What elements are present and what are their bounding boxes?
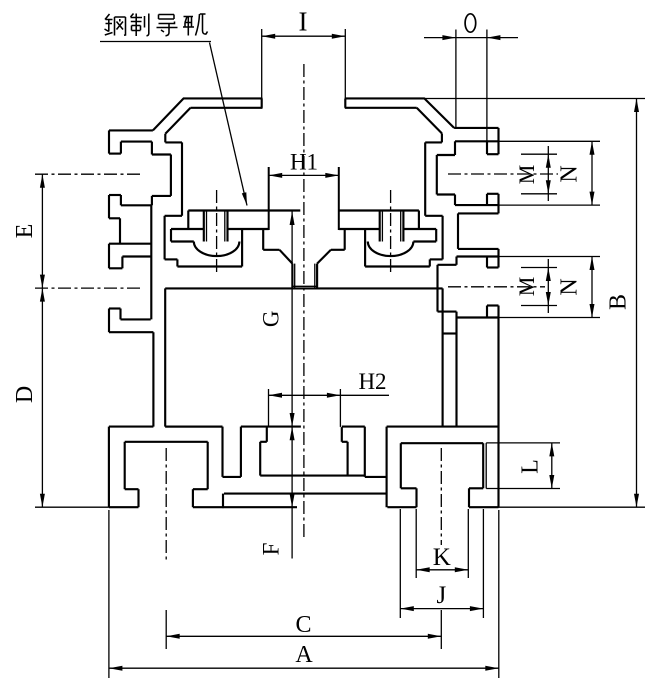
- dimension L line: [551, 443, 553, 489]
- right chamber wall: [455, 318, 457, 427]
- seat ledge left: [165, 215, 182, 217]
- right slot 2 upper lip: [486, 257, 488, 268]
- svg-text:F: F: [259, 543, 284, 556]
- right slot 2 cavity bottom: [457, 316, 499, 318]
- left foot leg inner left: [124, 442, 126, 489]
- undercut floor right: [331, 249, 345, 251]
- bolt R thread line left: [381, 211, 383, 242]
- H2 slot widening step left: [260, 441, 267, 443]
- dimension D line: [41, 288, 43, 507]
- dimension N2 line: [591, 257, 593, 318]
- dimension O label: [465, 14, 476, 32]
- right column top edge: [454, 127, 498, 129]
- chamfer inner left: [165, 108, 190, 134]
- left foot bottom right: [193, 506, 224, 508]
- right foot centerline: [440, 448, 442, 545]
- left column top edge: [109, 129, 153, 131]
- seat step left: [165, 258, 178, 260]
- H2 slot mouth wall right: [341, 427, 343, 442]
- right slot 1 centerline: [448, 173, 558, 175]
- tooth 1 top and cover: [241, 426, 301, 428]
- dimension N1 line: [591, 141, 593, 205]
- leader underline: [100, 41, 211, 43]
- right face lower: [497, 306, 499, 508]
- left slot 1 centerline: [35, 173, 142, 175]
- dimension I line: [262, 35, 346, 37]
- dimension M2 extension lines: [521, 267, 557, 269]
- bolt L shank side right: [226, 211, 228, 242]
- seat ledge right: [425, 215, 442, 217]
- dimension O extension lines: [455, 30, 457, 129]
- left slot 2 pocket wall: [150, 205, 152, 319]
- right slot 1 cavity top: [455, 140, 499, 142]
- svg-text:A: A: [295, 642, 313, 668]
- clamp plate right: [339, 228, 380, 230]
- right column notch: [458, 212, 499, 214]
- countersink cone right: [317, 250, 331, 264]
- left foot bottom left: [109, 506, 139, 508]
- label: steel guide rail (Chinese): [105, 14, 208, 37]
- dimension I extension lines: [261, 29, 263, 98]
- dimension F line: [291, 427, 293, 559]
- rail right end face: [418, 211, 420, 230]
- left face notch: [109, 217, 120, 219]
- left slot 2 pocket top: [122, 255, 150, 257]
- bolt end cap: [292, 285, 317, 287]
- leader line: [210, 43, 248, 206]
- right face upper: [497, 128, 499, 154]
- bolt R shank side right: [402, 211, 404, 242]
- dimension C line: [166, 635, 441, 637]
- svg-text:H2: H2: [358, 369, 386, 394]
- undercut wall right: [344, 229, 346, 250]
- bolt L shank side left: [203, 211, 205, 242]
- bolt L thread line left: [206, 211, 208, 242]
- left foot cavity ceiling: [125, 441, 208, 443]
- bottom plate top: [224, 493, 386, 495]
- dimension J extension lines: [399, 509, 401, 618]
- svg-text:E: E: [12, 224, 38, 239]
- dimension A line: [109, 667, 499, 669]
- left foot top plate: [109, 426, 153, 428]
- left slot 2 centerline: [35, 287, 142, 289]
- H2 slot widening step right: [342, 441, 348, 443]
- dimension D extension line bottom: [35, 506, 109, 508]
- svg-text:I: I: [299, 7, 308, 37]
- right chamber top: [443, 332, 457, 334]
- dimension K line: [416, 569, 468, 571]
- channel 1 right wall: [240, 427, 242, 477]
- bolt L thread line right: [224, 211, 226, 242]
- clamp plate left: [171, 228, 204, 230]
- rail slot wall left / H1 extension: [268, 167, 270, 230]
- left face between slot1 and notch: [108, 195, 110, 218]
- seat floor right: [365, 265, 430, 267]
- channel 1 left wall: [221, 427, 223, 477]
- interior box left wall: [164, 288, 166, 426]
- right slot 2 cavity top: [457, 255, 499, 257]
- left face above slot 2: [108, 244, 110, 269]
- seat step right: [430, 258, 443, 260]
- left slot 1 lower lip: [120, 195, 122, 205]
- left slot 1 pocket bottom: [151, 196, 153, 205]
- bolt hole wall right: [316, 264, 318, 289]
- rail top surface left: [188, 209, 300, 211]
- right foot top plate: [387, 426, 499, 428]
- tooth 2 right wall: [364, 427, 366, 477]
- undercut floor left: [263, 249, 279, 251]
- left foot ledge left: [137, 489, 139, 507]
- svg-text:N: N: [557, 165, 583, 182]
- left slot 2 upper lip: [121, 257, 123, 269]
- dimension M2 line: [547, 259, 549, 313]
- dimension B extension top: [425, 98, 645, 100]
- right slot 1 pocket wall upper: [454, 141, 456, 155]
- svg-text:B: B: [606, 294, 632, 310]
- right foot cavity ceiling: [401, 442, 483, 444]
- bottom plate bottom face: [223, 506, 298, 508]
- dimension B extension bottom: [499, 506, 646, 508]
- right slot 1 cavity bottom: [455, 204, 499, 206]
- dimension M1 extension lines: [521, 153, 557, 155]
- right slot 1 lower lip: [486, 194, 488, 205]
- bottom plate left end: [222, 494, 224, 508]
- top cover plate left: [183, 97, 263, 99]
- left slot 2 lower lip: [109, 307, 121, 309]
- rail top surface right: [339, 209, 419, 211]
- right slot 2 lower lip: [486, 306, 488, 318]
- svg-text:G: G: [259, 310, 284, 327]
- chamfer outer left: [153, 98, 184, 130]
- dimension H2 extension lines: [268, 389, 270, 427]
- dimension N2 extension lines: [499, 256, 601, 258]
- channel 2 right wall: [386, 427, 388, 508]
- dimension A extension lines: [108, 510, 110, 678]
- svg-text:D: D: [12, 386, 38, 403]
- dimension O line: [424, 37, 518, 39]
- dimension E line: [41, 174, 43, 288]
- left foot outer wall: [108, 427, 110, 508]
- dimension H1 line: [269, 174, 339, 176]
- top cover plate right: [345, 97, 425, 99]
- countersink cone left: [280, 250, 293, 264]
- channel 1 floor: [223, 476, 241, 478]
- bolt R centerline: [390, 190, 392, 273]
- right foot bottom right: [469, 506, 499, 508]
- left foot ledge right: [193, 488, 208, 490]
- bolt R thread line right: [400, 211, 402, 242]
- bolt hole wall left: [291, 264, 293, 289]
- bolt hole thread left: [294, 264, 296, 289]
- interior box right wall: [442, 288, 444, 426]
- box floor left segment: [165, 426, 222, 428]
- right foot leg inner right: [482, 443, 484, 488]
- dimension L extension lines: [486, 442, 560, 444]
- seat floor left: [177, 265, 242, 267]
- bolt R dome head: [368, 242, 414, 257]
- right slot 1 deep recess: [437, 154, 455, 156]
- svg-text:C: C: [295, 612, 311, 638]
- dimension G line: [291, 212, 293, 427]
- left lower outer wall: [152, 332, 154, 426]
- left slot 1 upper lip: [109, 153, 121, 155]
- svg-text:J: J: [437, 582, 447, 609]
- left foot centerline: [165, 448, 167, 560]
- rail left end face: [187, 211, 189, 230]
- dimension H2 line: [269, 394, 390, 396]
- right slot 2 centerline: [448, 286, 545, 288]
- right foot leg inner left: [400, 443, 402, 488]
- left face below slot 2: [108, 309, 110, 333]
- right slot 2 pocket wall upper: [455, 257, 457, 265]
- undercut wall left: [262, 229, 264, 250]
- left slot 1 pocket top: [121, 141, 152, 143]
- chamfer inner right: [417, 108, 442, 134]
- right foot ledge right: [469, 487, 483, 489]
- right slot 1 upper lip: [486, 141, 488, 154]
- svg-text:K: K: [433, 544, 451, 571]
- right slot 2 deep recess: [438, 264, 457, 266]
- bolt hole thread right: [314, 264, 316, 289]
- dimension B line: [636, 99, 638, 508]
- bolt R shank side left: [379, 211, 381, 242]
- tooth 2 top: [342, 426, 365, 428]
- channel 2 floor: [365, 476, 387, 478]
- dimension J line: [400, 608, 483, 610]
- dimension K extension lines: [415, 509, 417, 578]
- right face between notch and slot2: [497, 249, 499, 268]
- right slot 1 pocket wall lower: [454, 195, 456, 206]
- svg-text:H1: H1: [290, 150, 318, 175]
- chamfer outer right: [424, 98, 454, 128]
- bolt L centerline: [216, 190, 218, 273]
- left slot 1 deep recess: [152, 153, 171, 155]
- right face between slot1 and notch: [497, 194, 499, 214]
- right foot ledge left: [401, 487, 417, 489]
- rail slot wall right / H1 extension: [338, 167, 340, 230]
- svg-text:L: L: [518, 459, 544, 474]
- svg-text:M: M: [514, 165, 539, 185]
- H2 slot floor: [260, 475, 365, 477]
- main centerline: [303, 64, 305, 540]
- svg-text:M: M: [514, 277, 539, 297]
- H2 slot mouth wall left: [266, 427, 268, 442]
- svg-text:N: N: [557, 278, 583, 295]
- dimension C extension lines: [165, 610, 167, 649]
- dimension M1 line: [547, 146, 549, 201]
- bolt L dome head: [194, 242, 240, 257]
- dimension N1 extension lines: [499, 140, 601, 142]
- interior box ceiling: [165, 287, 442, 289]
- left foot leg inner right: [207, 442, 209, 489]
